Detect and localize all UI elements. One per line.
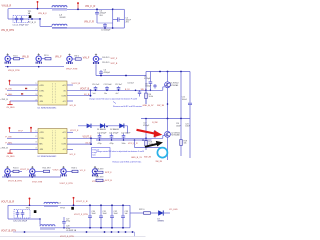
connector J1 xyxy=(5,53,10,63)
wire x190 vertical sec4 xyxy=(189,119,191,159)
svg-text:100nF: 100nF xyxy=(185,126,190,128)
wire Q1 rail left vertical xyxy=(145,72,147,105)
wire x181 vertical sec4 lower xyxy=(180,146,182,157)
svg-text:F_SEL: F_SEL xyxy=(6,143,13,145)
op-amp U1 pin separator dashes xyxy=(52,83,54,103)
net tick red pin2 xyxy=(25,88,27,89)
junction aux rail b xyxy=(86,231,88,233)
wire mid return rail xyxy=(8,18,40,20)
junction bank rail e xyxy=(142,139,144,141)
pin 8 wire right U1 stub xyxy=(67,100,73,102)
capacitor C11 xyxy=(105,86,109,90)
pin 7 wire right U1 xyxy=(67,95,91,97)
svg-text:Change resistor R10 value to a: Change resistor R10 value to adjust dead… xyxy=(89,98,138,101)
wire mid tap rail xyxy=(97,22,113,24)
svg-text:CTRL: CTRL xyxy=(39,138,44,140)
wire J3 right lead xyxy=(72,58,75,60)
connector J7 xyxy=(61,166,66,176)
inductor L8 bottom winding xyxy=(40,225,55,227)
svg-text:VOUT_F_R: VOUT_F_R xyxy=(76,201,88,203)
svg-text:VO_F: VO_F xyxy=(80,170,86,172)
junction out mid rail xyxy=(39,218,41,220)
junction bank rail b xyxy=(111,139,113,141)
wire right block left vertical xyxy=(112,9,114,28)
capacitor C27 leg xyxy=(62,217,66,228)
diode D1 xyxy=(87,124,91,128)
testpoint pad mid output xyxy=(34,210,37,213)
capacitor C8 gate snubber xyxy=(153,84,156,89)
wire aux rail tail down xyxy=(134,232,136,236)
svg-text:VIN_B_RTN: VIN_B_RTN xyxy=(8,70,20,72)
svg-text:10.0k: 10.0k xyxy=(149,96,154,98)
svg-text:SEL: SEL xyxy=(39,143,43,145)
capacitor C7 between rails xyxy=(149,72,153,91)
junction mid rail a xyxy=(31,18,33,20)
svg-text:4: 4 xyxy=(36,99,37,101)
svg-text:Remove and fit R7 and R9 resis: Remove and fit R7 and R9 resistors xyxy=(113,105,142,108)
transistor Q1 xyxy=(165,82,171,88)
power flag mid pin1 xyxy=(30,127,32,133)
connector J3 xyxy=(67,54,72,64)
wire J1 to R1 xyxy=(10,58,13,60)
capacitor C13 below rail xyxy=(138,90,141,96)
svg-text:VIN_F: VIN_F xyxy=(55,57,62,59)
pin 7 wire right U2 xyxy=(67,143,91,145)
svg-text:F_ON: F_ON xyxy=(6,137,12,139)
svg-text:Change resistor R20 value to a: Change resistor R20 value to adjust dead… xyxy=(96,150,145,153)
power bar below U2 pin4 xyxy=(7,150,12,154)
svg-text:VIN_F_RTN: VIN_F_RTN xyxy=(66,68,78,70)
wire x190 vertical lower xyxy=(189,108,191,119)
wire out left vertical xyxy=(7,205,9,219)
wire left vertical xyxy=(7,9,9,19)
junction 0V_F x91 xyxy=(90,143,92,145)
svg-text:VOUT_RTN: VOUT_RTN xyxy=(32,181,43,183)
svg-text:B_SW: B_SW xyxy=(152,122,158,124)
svg-text:1n0: 1n0 xyxy=(93,93,96,95)
wire x190 vertical upper xyxy=(189,72,191,103)
wire led branch xyxy=(130,212,144,214)
svg-text:+VO: +VO xyxy=(62,132,66,134)
capacitor C33 xyxy=(121,205,125,228)
svg-text:R17 49.9: R17 49.9 xyxy=(96,176,104,178)
wire bottom rail right of choke xyxy=(67,27,113,29)
svg-text:VOUT_F_RTN: VOUT_F_RTN xyxy=(60,183,74,185)
svg-text:-VIN: -VIN xyxy=(39,149,43,151)
svg-text:R16 49.9: R16 49.9 xyxy=(96,168,104,170)
svg-text:470p: 470p xyxy=(98,143,102,145)
svg-text:NX7002AK: NX7002AK xyxy=(170,84,179,87)
junction diode rail xyxy=(106,126,108,128)
junction Q2 rail x181 xyxy=(180,118,182,120)
svg-text:COM: COM xyxy=(61,96,66,98)
junction aux rail a xyxy=(24,231,26,233)
junction rail at C12 xyxy=(118,90,120,92)
junction bank rail c xyxy=(123,139,125,141)
power flag TP13 xyxy=(73,197,75,205)
svg-text:3: 3 xyxy=(36,94,37,96)
wire Q1 top rail xyxy=(146,71,190,73)
svg-text:SCP_B: SCP_B xyxy=(105,180,112,182)
transistor Q2 xyxy=(165,131,171,137)
wire out mid jog xyxy=(39,219,41,225)
connector J6 xyxy=(30,166,35,176)
svg-text:SEL: SEL xyxy=(39,96,43,98)
wire out top rail left xyxy=(8,204,44,206)
svg-text:VO_LED: VO_LED xyxy=(169,209,178,211)
resistor R15 xyxy=(96,179,103,181)
power flag VIN_F xyxy=(77,2,79,9)
svg-text:GND_A_1V: GND_A_1V xyxy=(143,104,154,107)
junction lower rail mid xyxy=(125,75,127,77)
resistor R2 xyxy=(45,58,51,60)
wire out top rail mid xyxy=(58,204,130,206)
capacitor C21 xyxy=(110,134,114,141)
svg-text:C12 4u7: C12 4u7 xyxy=(115,84,122,86)
wire mid rail jog down xyxy=(39,19,41,26)
black annotation arrow xyxy=(145,141,163,147)
wire Q1 source xyxy=(167,88,169,119)
svg-text:VOUT_B: VOUT_B xyxy=(20,169,29,171)
wire top rail right of choke xyxy=(67,8,113,10)
wire aux rail y232 xyxy=(13,231,135,233)
svg-text:4u7: 4u7 xyxy=(116,93,119,95)
wire top rail to right block xyxy=(113,8,125,10)
pin 5 wire right U1 stub xyxy=(67,84,73,86)
wire J6 right lead xyxy=(35,170,43,172)
wire R22 to D3 xyxy=(151,212,159,214)
svg-text:C21 470pF: C21 470pF xyxy=(109,133,119,135)
svg-text:CTRL: CTRL xyxy=(39,90,44,92)
svg-text:SCP_F: SCP_F xyxy=(111,58,118,60)
junction Q2 left top xyxy=(145,118,147,120)
power flag TP VIN xyxy=(37,1,39,9)
svg-text:C4 2200pF: C4 2200pF xyxy=(101,30,111,32)
diode D3 xyxy=(119,123,123,128)
svg-text:SW_2B: SW_2B xyxy=(144,156,152,158)
svg-text:COM: COM xyxy=(61,143,66,145)
svg-text:VIN_F_R: VIN_F_R xyxy=(84,20,94,23)
junction out rail at flag xyxy=(29,205,31,207)
junction top rail at x78 xyxy=(77,8,79,10)
svg-text:SW_1B: SW_1B xyxy=(157,105,165,107)
wire Q2 top rail xyxy=(141,118,190,120)
resistor R12 xyxy=(44,170,50,172)
op-amp U1 body xyxy=(38,81,67,105)
junction right block top xyxy=(112,8,114,10)
svg-text:VIN_B_R: VIN_B_R xyxy=(2,5,12,7)
wire x181 vertical sec4 upper xyxy=(180,119,182,140)
svg-text:D1 BAS16: D1 BAS16 xyxy=(97,128,106,131)
wire diode rail xyxy=(78,125,128,127)
pin 6 rail VOUT_B to Q1 gate xyxy=(67,89,146,91)
resistor R1 xyxy=(14,58,20,60)
svg-text:R5 49.9: R5 49.9 xyxy=(102,62,110,64)
wire after D3 xyxy=(164,212,170,214)
svg-text:VCC2_F: VCC2_F xyxy=(70,130,79,132)
wire ground rail jacks output left xyxy=(2,176,61,178)
pin 2 wire left U1 xyxy=(7,89,38,91)
inductor L7 top winding xyxy=(52,6,67,8)
svg-text:100nF: 100nF xyxy=(182,99,188,101)
svg-text:NX7002AK: NX7002AK xyxy=(171,134,180,137)
junction out rail TP13 xyxy=(73,204,75,206)
svg-text:TP_B_R: TP_B_R xyxy=(28,22,36,24)
resistor R14 xyxy=(96,171,103,173)
wire out bottom rail xyxy=(55,227,130,229)
svg-text:VCC_F_R: VCC_F_R xyxy=(128,143,138,145)
wire J2 right lead xyxy=(41,58,45,60)
wire top rail left xyxy=(8,8,52,10)
junction VOUT_F rail x91 xyxy=(90,137,92,139)
wire scope drop vertical xyxy=(95,64,97,75)
svg-text:GND_B_1V: GND_B_1V xyxy=(131,157,142,159)
junction rail at C10 xyxy=(95,90,97,92)
junction Q2 gate rail x146 xyxy=(145,137,147,139)
resistor R13 xyxy=(72,170,78,172)
capacitor box C1 C2 dashed outline xyxy=(13,16,29,23)
wire Q2 gate into transistor xyxy=(163,134,165,136)
pin 3 wire left U2 xyxy=(7,143,38,145)
svg-text:+VIN: +VIN xyxy=(39,132,44,134)
capacitor C32 xyxy=(110,205,114,228)
svg-text:VIN_F_R: VIN_F_R xyxy=(85,5,95,8)
junction Q2 rail x168 xyxy=(167,118,169,120)
pin 6 rail VOUT_F to Q2 gate xyxy=(67,137,163,139)
op-amp U2 body xyxy=(38,129,67,154)
resistor R11 xyxy=(13,170,19,172)
junction top rail x160 xyxy=(159,71,161,73)
wire Q1 drain xyxy=(167,72,169,82)
net tick red pin3 xyxy=(21,93,23,94)
capacitor C20 xyxy=(98,134,102,141)
wire Q1 gate jog up xyxy=(162,87,164,90)
junction rail at x146 xyxy=(145,89,147,91)
svg-text:-VO_F: -VO_F xyxy=(69,154,76,156)
svg-text:L9 600R 1A: L9 600R 1A xyxy=(66,229,77,232)
op-amp U2 pin separator dashes xyxy=(52,131,54,152)
capacitor C10 xyxy=(94,86,98,90)
svg-text:U1 NXE2S0505MC: U1 NXE2S0505MC xyxy=(38,107,57,109)
svg-text:0V_B: 0V_B xyxy=(84,94,90,96)
junction bottom rail at x105 xyxy=(104,27,106,29)
svg-text:2: 2 xyxy=(36,136,37,138)
junction gnd a xyxy=(7,66,9,68)
svg-text:R4 49.9: R4 49.9 xyxy=(102,57,110,59)
junction bank rail a xyxy=(99,139,101,141)
junction out rail x101 xyxy=(100,204,102,206)
capacitor C31 xyxy=(99,205,103,228)
wire R11 to J6 xyxy=(19,170,22,172)
testpoint TP13 pad xyxy=(71,207,74,210)
wire out right vertical xyxy=(129,205,131,228)
wire J7 right lead xyxy=(66,170,72,172)
junction gnd b xyxy=(38,66,40,68)
svg-text:3: 3 xyxy=(36,142,37,144)
pin 4 wire left U1 xyxy=(10,100,38,102)
wire out mid rail xyxy=(8,218,40,220)
junction top rail x181 xyxy=(180,71,182,73)
svg-text:GREEN: GREEN xyxy=(157,221,164,223)
svg-text:C1,C2 470pF 2kV: C1,C2 470pF 2kV xyxy=(13,25,30,27)
junction mid rail b xyxy=(39,18,41,20)
power flag U2 vcc xyxy=(9,127,11,132)
svg-text:VOUT_B_RTN: VOUT_B_RTN xyxy=(8,180,22,182)
junction top rail at flag xyxy=(37,8,39,10)
junction rail at x135.5 xyxy=(135,90,137,92)
svg-text:R11 0: R11 0 xyxy=(13,168,19,170)
connector J2 xyxy=(36,53,41,63)
svg-text:B_ON: B_ON xyxy=(6,89,12,91)
svg-text:B_1V: B_1V xyxy=(125,89,130,91)
testpoint TP1 pad xyxy=(29,15,31,18)
capacitor C30 xyxy=(88,205,92,228)
svg-text:C10 1nF: C10 1nF xyxy=(92,84,100,86)
svg-text:Remove and fit R16 and R17 lin: Remove and fit R16 and R17 links xyxy=(113,161,142,164)
wire lower rail to Q1 block xyxy=(96,75,146,77)
svg-text:R22 0: R22 0 xyxy=(139,209,145,211)
svg-text:2000R: 2000R xyxy=(60,17,66,19)
junction bank rail d xyxy=(134,139,136,141)
resistor R22 xyxy=(144,212,151,215)
svg-text:4: 4 xyxy=(36,147,37,149)
wire 0V_F jog vertical xyxy=(90,138,92,144)
svg-text:SCP_B: SCP_B xyxy=(111,63,118,65)
red annotation arrow xyxy=(137,130,163,137)
junction aux rail g xyxy=(132,231,134,233)
junction out rail x123 xyxy=(122,204,124,206)
svg-text:SCP_F: SCP_F xyxy=(105,172,112,174)
capacitor C1 xyxy=(15,16,19,23)
svg-text:4700pF: 4700pF xyxy=(104,72,111,74)
wire below R8 xyxy=(145,99,147,104)
wire cap bank rail 4 xyxy=(96,139,152,141)
wire mid rail to choke xyxy=(40,25,52,27)
svg-text:VOUT_F_RTN: VOUT_F_RTN xyxy=(74,214,88,216)
svg-text:C20 470pF: C20 470pF xyxy=(97,133,107,135)
svg-text:VCC2_R: VCC2_R xyxy=(72,83,81,85)
junction right block bottom xyxy=(112,27,114,29)
svg-text:+3V3_B: +3V3_B xyxy=(0,148,8,150)
capacitor C5 across block xyxy=(113,17,125,21)
wire right block right vertical xyxy=(123,9,125,28)
junction out gnd a xyxy=(7,176,9,178)
power bar below pin4 xyxy=(7,101,12,105)
resistor R3 xyxy=(75,58,81,60)
power flag U1 vcc xyxy=(9,80,11,85)
junction aux rail c xyxy=(104,231,106,233)
svg-text:VOUT_B_RTN: VOUT_B_RTN xyxy=(1,231,16,233)
svg-text:VOUT_F_RTN: VOUT_F_RTN xyxy=(60,236,74,238)
wire Q1 gate into transistor xyxy=(163,86,165,88)
capacitor C12 xyxy=(117,86,121,90)
svg-text:R13 0: R13 0 xyxy=(72,168,78,170)
capacitor C18 gate snubber xyxy=(153,130,156,138)
svg-text:10n: 10n xyxy=(104,93,107,95)
wire Q2 drain xyxy=(167,119,169,132)
pin 8 wire right U2 stub xyxy=(67,149,73,151)
wire ground rail under jacks xyxy=(5,66,64,68)
junction 0V x90.5 xyxy=(90,95,92,97)
svg-text:4700pF: 4700pF xyxy=(143,125,150,127)
svg-text:-VO_B: -VO_B xyxy=(69,105,76,107)
wire bottom rail to right block xyxy=(113,27,125,29)
capacitor C22 xyxy=(122,134,126,141)
connector J4 xyxy=(93,54,98,64)
pin 1 wire left U1 xyxy=(10,84,39,86)
junction out rail x90 xyxy=(89,204,91,206)
svg-text:-VIN: -VIN xyxy=(39,101,43,103)
annotation box TVS note xyxy=(92,148,111,158)
pin 2 wire left U2 xyxy=(7,137,38,139)
svg-text:100n: 100n xyxy=(122,143,126,145)
capacitor C6 above lower rail xyxy=(99,70,103,76)
svg-text:note: note xyxy=(92,154,96,157)
svg-text:+VO: +VO xyxy=(62,85,66,87)
svg-text:SW_2B: SW_2B xyxy=(156,161,163,163)
wire Q2 source xyxy=(167,137,169,160)
junction top rail at x97 xyxy=(96,8,98,10)
svg-text:470p: 470p xyxy=(110,143,114,145)
svg-text:C11 10nF: C11 10nF xyxy=(104,84,113,86)
wire x181 vertical xyxy=(180,72,182,119)
svg-text:TP_F: TP_F xyxy=(18,130,24,132)
svg-text:2: 2 xyxy=(36,89,37,91)
wire mid link horizontal xyxy=(135,147,164,149)
svg-text:VOUT_B: VOUT_B xyxy=(80,89,90,91)
svg-text:VIN_B_RTN: VIN_B_RTN xyxy=(1,29,14,32)
junction gate rail at C7 xyxy=(150,90,152,92)
connector J5 xyxy=(5,166,10,176)
svg-text:C13 4u7: C13 4u7 xyxy=(127,83,134,85)
capacitor C3 on top rail xyxy=(95,9,99,23)
junction aux rail e xyxy=(118,231,120,233)
inductor L7 bottom winding xyxy=(52,24,67,26)
svg-text:VIN_B: VIN_B xyxy=(22,56,29,58)
svg-text:VIN_F: VIN_F xyxy=(83,57,90,59)
wire D3 drop vertical xyxy=(127,126,129,134)
wire Q2 left vertical xyxy=(145,119,147,151)
junction VOUT_B rail x90.5 xyxy=(90,89,92,91)
wire Q1 gate xyxy=(146,89,163,91)
resistor R8 gate pulldown xyxy=(145,93,147,99)
svg-text:D2 BAS16: D2 BAS16 xyxy=(110,128,119,131)
resistor R19 on x181 xyxy=(180,140,182,146)
svg-text:+VIN: +VIN xyxy=(39,85,44,87)
junction aux rail d xyxy=(111,231,113,233)
svg-text:-VO: -VO xyxy=(62,101,66,103)
junction top rail x168 xyxy=(167,71,169,73)
capacitor C26 xyxy=(21,210,25,218)
wire 0V jog vertical xyxy=(90,90,92,95)
svg-text:VOUT_B_R: VOUT_B_R xyxy=(1,200,14,203)
wire R1 to J2 xyxy=(20,58,25,60)
capacitor C4 xyxy=(103,23,107,28)
cyan annotation circle xyxy=(157,148,167,158)
svg-text:100nF: 100nF xyxy=(176,125,181,127)
pin 5 wire right U2 stub xyxy=(67,131,73,133)
svg-text:B_SEL: B_SEL xyxy=(6,94,14,96)
wire mid link xyxy=(134,140,136,148)
svg-text:R12 49.9: R12 49.9 xyxy=(43,168,52,170)
svg-text:C22 100nF: C22 100nF xyxy=(121,133,131,135)
resistor R18 gate pulldown xyxy=(145,141,147,147)
svg-text:-VO: -VO xyxy=(62,149,66,151)
capacitor C16 on right edge xyxy=(188,102,192,108)
junction rail at C11 xyxy=(106,90,108,92)
junction bottom rail x64 xyxy=(63,227,65,229)
svg-text:1000pF: 1000pF xyxy=(145,86,152,88)
